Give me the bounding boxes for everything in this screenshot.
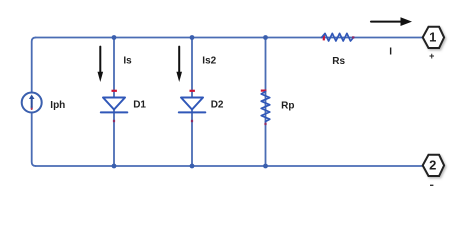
wire Rp branch [265, 38, 267, 167]
svg-text:Rp: Rp [281, 100, 294, 111]
svg-text:+: + [429, 51, 434, 61]
svg-text:I: I [389, 47, 392, 58]
node junction top D1 [112, 35, 117, 40]
resistor Rp [261, 90, 295, 126]
port 2 [423, 155, 444, 186]
port 1 [423, 27, 444, 61]
wire D2 branch [191, 38, 193, 167]
current arrow Is [98, 47, 133, 82]
svg-text:1: 1 [429, 29, 436, 44]
current arrow Is2 [176, 47, 216, 82]
svg-text:Rs: Rs [332, 56, 345, 67]
wire top [36, 37, 423, 39]
svg-text:D1: D1 [133, 100, 146, 111]
svg-text:2: 2 [429, 157, 436, 172]
current arrow I [371, 17, 412, 57]
diode D1 [101, 90, 147, 123]
wire bottom [36, 165, 423, 167]
resistor Rs [322, 33, 355, 66]
svg-text:D2: D2 [211, 100, 224, 111]
node junction bottom D2 [190, 164, 195, 169]
svg-text:Is: Is [123, 56, 132, 67]
diode D2 [179, 90, 224, 123]
node junction top Rp [263, 35, 268, 40]
node junction bottom D1 [112, 164, 117, 169]
svg-text:Iph: Iph [50, 100, 65, 111]
node junction bottom Rp [263, 164, 268, 169]
wire left [32, 38, 36, 167]
current source Iph [22, 93, 66, 113]
svg-text:Is2: Is2 [202, 56, 216, 67]
wire D1 branch [113, 38, 115, 167]
node junction top D2 [190, 35, 195, 40]
